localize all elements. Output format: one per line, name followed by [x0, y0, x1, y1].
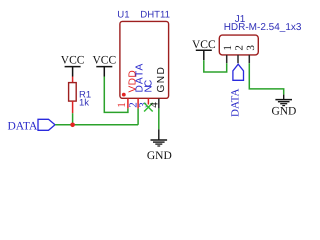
power flag VCC (net VCC, above R1) [61, 55, 85, 77]
svg-text:NC: NC [143, 80, 154, 93]
IC U1 DHT11 [117, 10, 170, 99]
resistor R1 1k [69, 77, 92, 114]
svg-text:4: 4 [148, 102, 160, 108]
J1 pin 3 stub [248, 55, 250, 63]
no-connect X on pin 3 [144, 103, 153, 112]
pin 3 stub [147, 99, 149, 105]
connector J1 HDR-M-2.54_1x3 [219, 14, 302, 55]
wire J1 pin 3 to ground [249, 63, 283, 94]
wire DATA horizontal to pin 2 of U1 [55, 124, 138, 126]
svg-text:VCC: VCC [192, 39, 216, 51]
net port DATA (under J1 pin 2) [230, 64, 244, 117]
wire pin4 to ground [158, 108, 160, 129]
wire pin2 vertical [137, 108, 139, 124]
svg-text:DATA: DATA [8, 120, 38, 132]
svg-text:GND: GND [156, 67, 167, 92]
svg-text:U1: U1 [117, 10, 129, 21]
pin 4 stub [158, 99, 160, 109]
svg-text:2: 2 [234, 45, 246, 51]
pin 2 stub [137, 99, 139, 109]
J1 pin 2 stub [237, 55, 239, 63]
wire VCC to J1 pin 1 [204, 60, 227, 72]
pin 1 stub [127, 99, 129, 109]
junction dot [70, 123, 75, 128]
pin 1 marker dot [122, 93, 126, 97]
svg-text:1: 1 [222, 45, 234, 51]
svg-text:VCC: VCC [61, 55, 85, 67]
ground symbol GND (right of J1) [271, 95, 296, 118]
svg-text:HDR-M-2.54_1x3: HDR-M-2.54_1x3 [224, 22, 302, 33]
ground symbol GND (under U1) [147, 129, 172, 162]
svg-text:1: 1 [116, 102, 128, 108]
power flag VCC (left of J1) [192, 39, 216, 60]
svg-text:1k: 1k [79, 97, 89, 108]
wire VCC to U1 pin 1 [104, 77, 128, 113]
svg-text:DATA: DATA [230, 88, 242, 117]
svg-text:VCC: VCC [92, 55, 116, 67]
svg-text:3: 3 [245, 45, 257, 51]
svg-text:DHT11: DHT11 [140, 10, 170, 21]
power flag VCC (above U1 pin 1) [92, 55, 116, 77]
svg-text:GND: GND [147, 150, 172, 162]
J1 pin 1 stub [226, 55, 228, 63]
svg-text:GND: GND [271, 105, 296, 117]
net port DATA (left) [8, 119, 56, 132]
wire R1 to junction [72, 113, 74, 125]
